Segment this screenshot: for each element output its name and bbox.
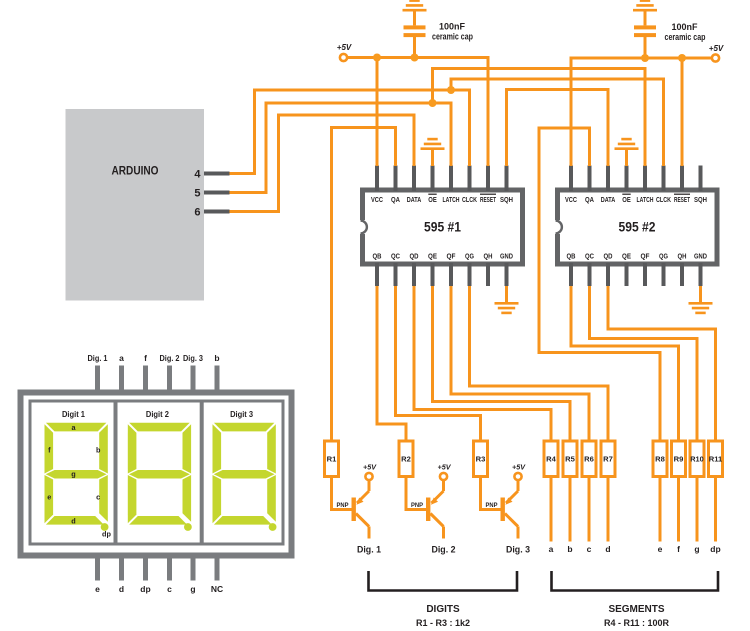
- svg-text:+5V: +5V: [438, 463, 452, 472]
- svg-text:PNP: PNP: [411, 502, 423, 509]
- display top pin a: [119, 353, 124, 390]
- svg-text:R4 - R11 : 100R: R4 - R11 : 100R: [604, 618, 670, 628]
- svg-text:R10: R10: [690, 455, 704, 464]
- 595 #1 pin QF: [447, 254, 457, 287]
- svg-text:NC: NC: [211, 584, 223, 594]
- ground above C1: [403, 1, 427, 11]
- resistor R11: [709, 441, 724, 477]
- svg-text:QE: QE: [622, 254, 631, 261]
- ground above C2: [633, 1, 657, 11]
- svg-text:QC: QC: [391, 254, 400, 261]
- 7-segment digit 1: [45, 423, 109, 531]
- svg-text:SQH: SQH: [500, 197, 513, 204]
- svg-text:LATCH: LATCH: [443, 197, 460, 204]
- 595 #1 pin LATCH: [443, 166, 460, 205]
- resistor R1: [325, 441, 339, 477]
- display top pin Dig. 2: [160, 353, 180, 390]
- display digit divider 2: [200, 401, 204, 544]
- svg-text:100nF: 100nF: [671, 22, 698, 32]
- svg-text:GND: GND: [694, 254, 707, 261]
- svg-text:595 #1: 595 #1: [424, 219, 461, 235]
- +5V terminal right: [712, 54, 719, 61]
- +5V terminal left: [340, 54, 347, 61]
- 595 #1 pin QC: [391, 254, 400, 287]
- wire QF 595#1 to R6: [451, 286, 589, 441]
- svg-text:CLCK: CLCK: [462, 197, 477, 204]
- arduino body: [66, 109, 205, 301]
- 595 #1 pin QE: [428, 254, 437, 287]
- 595 #1 notch: [359, 220, 366, 234]
- 595 #2 pin QG: [659, 254, 668, 287]
- 595 #2 pin CLCK: [656, 166, 671, 205]
- display bottom pin dp: [140, 558, 150, 594]
- wire QD 595#1 to R4: [414, 286, 551, 441]
- node junction rail/C2: [641, 54, 649, 62]
- 595 #1 body: [363, 190, 523, 264]
- 595 #1 pin QG: [465, 254, 474, 287]
- wire QE 595#1 to R5: [433, 286, 571, 441]
- svg-text:R11: R11: [709, 455, 723, 464]
- svg-text:QC: QC: [585, 254, 594, 261]
- svg-text:DATA: DATA: [407, 197, 422, 204]
- svg-text:Dig. 1: Dig. 1: [88, 353, 108, 363]
- wire QB 595#1 to R2: [377, 286, 406, 441]
- svg-text:DATA: DATA: [601, 197, 616, 204]
- wire R7 to segment d: [605, 477, 610, 555]
- 595 #2 pin QE: [622, 254, 631, 287]
- wire R9 to segment f: [677, 477, 680, 555]
- svg-text:c: c: [587, 544, 592, 554]
- ground at OE 595#2: [625, 149, 628, 166]
- svg-text:OE: OE: [622, 197, 631, 204]
- svg-text:f: f: [144, 353, 147, 363]
- +5V terminal Q3 emitter: [512, 463, 526, 481]
- resistor R7: [601, 441, 615, 477]
- svg-text:PNP: PNP: [337, 502, 349, 509]
- 595 #2 pin QF: [641, 254, 651, 287]
- node junction rail/VCC#1: [373, 54, 381, 62]
- svg-text:OE: OE: [428, 197, 437, 204]
- arduino pin 6: [194, 207, 229, 219]
- svg-text:R8: R8: [655, 455, 665, 464]
- svg-text:d: d: [605, 544, 610, 554]
- node junction LATCH net: [429, 99, 437, 107]
- 595 #2 pin SQH: [694, 166, 707, 205]
- svg-text:QH: QH: [678, 254, 687, 261]
- svg-text:PNP: PNP: [486, 502, 498, 509]
- display bottom pin NC: [211, 558, 223, 594]
- svg-text:+5V: +5V: [709, 44, 724, 53]
- 595 #2 pin QB: [567, 254, 576, 287]
- ground at GND 595#1: [505, 286, 508, 303]
- wire R3 to Q3 base: [481, 477, 501, 510]
- transistor Q2 (PNP): [411, 481, 444, 539]
- bracket SEGMENTS: [552, 571, 719, 591]
- svg-text:+5V: +5V: [337, 43, 352, 52]
- wire R8 to segment e: [658, 477, 663, 555]
- wire QC 595#2 to R10: [590, 286, 698, 441]
- resistor R3: [474, 441, 488, 477]
- capacitor C1 100nF: [404, 25, 426, 37]
- svg-text:dp: dp: [710, 544, 720, 554]
- svg-text:b: b: [567, 544, 572, 554]
- display top pin Dig. 1: [88, 353, 108, 390]
- svg-text:b: b: [214, 353, 219, 363]
- svg-text:CLCK: CLCK: [656, 197, 671, 204]
- svg-text:DIGITS: DIGITS: [426, 604, 460, 615]
- svg-text:ARDUINO: ARDUINO: [112, 164, 159, 178]
- display top pin Dig. 3: [183, 353, 203, 390]
- 595 #1 pin QD: [410, 254, 419, 287]
- svg-text:a: a: [119, 353, 124, 363]
- svg-text:QB: QB: [567, 254, 576, 261]
- svg-text:Dig. 2: Dig. 2: [432, 545, 456, 556]
- resistor R9: [672, 441, 686, 477]
- svg-text:QA: QA: [391, 197, 400, 204]
- svg-text:100nF: 100nF: [439, 22, 466, 32]
- svg-text:QG: QG: [465, 254, 474, 261]
- wire LATCH branch to LATCH 595#2: [433, 69, 646, 167]
- svg-text:QF: QF: [447, 254, 457, 261]
- bracket DIGITS: [369, 571, 518, 591]
- svg-text:RESET: RESET: [480, 197, 496, 204]
- svg-text:SQH: SQH: [694, 197, 707, 204]
- svg-text:e: e: [95, 584, 100, 594]
- display bottom pin d: [119, 558, 124, 594]
- svg-text:VCC: VCC: [371, 197, 383, 204]
- svg-text:Digit 1: Digit 1: [62, 410, 85, 419]
- display bottom pin e: [95, 558, 100, 594]
- ground at OE 595#1: [431, 149, 434, 166]
- capacitor C2 100nF: [634, 25, 656, 37]
- wire QD 595#2 to R11: [608, 286, 716, 441]
- 595 #1 pin QH: [484, 254, 493, 287]
- svg-text:VCC: VCC: [565, 197, 577, 204]
- +5V terminal Q1 emitter: [363, 463, 377, 481]
- svg-text:+5V: +5V: [363, 463, 377, 472]
- wire QC 595#1 to R3: [396, 286, 481, 441]
- resistor R8: [653, 441, 667, 477]
- 595 #2 pin QH: [678, 254, 687, 287]
- 595 #1 pin GND: [500, 254, 513, 287]
- ground at GND 595#2: [699, 286, 702, 303]
- svg-text:QD: QD: [604, 254, 613, 261]
- svg-text:QE: QE: [428, 254, 437, 261]
- 595 #2 pin OE (active low): [622, 166, 631, 205]
- wire Arduino pin 5 to LATCH 595#1: [230, 103, 452, 193]
- 595 #1 pin QA: [391, 166, 400, 205]
- display outer frame: [21, 393, 292, 556]
- wire +5V rail right to VCC 595#2: [571, 58, 712, 166]
- 595 #2 pin QA: [585, 166, 594, 205]
- arduino pin 4: [194, 169, 229, 181]
- resistor R6: [582, 441, 596, 477]
- svg-text:R3: R3: [476, 455, 486, 464]
- node junction rail/C1: [411, 54, 419, 62]
- svg-text:6: 6: [194, 207, 200, 219]
- 595 #1 pin VCC: [371, 166, 383, 205]
- svg-text:QB: QB: [373, 254, 382, 261]
- svg-text:R1 - R3 : 1k2: R1 - R3 : 1k2: [416, 618, 470, 628]
- transistor Q1 (PNP): [337, 481, 370, 539]
- wire QB 595#2 to R9: [571, 286, 679, 441]
- svg-text:+5V: +5V: [512, 463, 526, 472]
- svg-text:R5: R5: [565, 455, 575, 464]
- svg-text:c: c: [96, 492, 100, 501]
- svg-text:Digit 2: Digit 2: [146, 410, 169, 419]
- svg-text:f: f: [677, 544, 680, 554]
- svg-text:g: g: [190, 584, 195, 594]
- wire R11 to segment dp: [710, 477, 720, 555]
- display top pin b: [214, 353, 219, 390]
- svg-text:Dig. 3: Dig. 3: [506, 545, 530, 556]
- wire QA 595#2 to R8 (routed around chip): [539, 128, 660, 441]
- display bottom pin c: [167, 558, 172, 594]
- svg-text:dp: dp: [140, 584, 150, 594]
- 595 #2 body: [558, 190, 718, 264]
- 595 #2 pin DATA: [601, 166, 616, 205]
- resistor R10: [690, 441, 704, 477]
- 595 #1 pin QB: [373, 254, 382, 287]
- wire C1 to rail: [413, 36, 416, 58]
- 595 #1 pin OE (active low): [428, 166, 437, 205]
- wire QG 595#1 to R7: [470, 286, 609, 441]
- svg-text:ceramic cap: ceramic cap: [665, 32, 706, 42]
- 595 #1 pin SQH: [500, 166, 513, 205]
- svg-text:c: c: [167, 584, 172, 594]
- svg-text:R4: R4: [546, 455, 556, 464]
- svg-text:QF: QF: [641, 254, 651, 261]
- 595 #2 pin RESET (active low): [674, 166, 690, 205]
- display inner frame: [30, 401, 283, 544]
- 595 #1 pin RESET (active low): [480, 166, 496, 205]
- svg-text:Dig. 1: Dig. 1: [357, 545, 382, 556]
- 7-segment digit 2: [128, 423, 192, 531]
- 595 #2 pin VCC: [565, 166, 577, 205]
- 595 #2 pin LATCH: [637, 166, 654, 205]
- 7-segment digit 3: [213, 423, 277, 531]
- wire Arduino pin 4 to CLCK 595#1: [230, 90, 470, 174]
- 595 #2 notch: [554, 220, 561, 234]
- svg-text:ceramic cap: ceramic cap: [432, 32, 473, 42]
- resistor R4: [544, 441, 558, 477]
- 595 #1 pin DATA: [407, 166, 422, 205]
- svg-text:R9: R9: [674, 455, 684, 464]
- 595 #2 pin QC: [585, 254, 594, 287]
- arduino pin 5: [194, 188, 229, 200]
- resistor R2: [399, 441, 413, 477]
- wire +5V rail left to RESET 595#1: [348, 58, 489, 167]
- wire R10 to segment g: [694, 477, 699, 555]
- 595 #1 pin CLCK: [462, 166, 477, 205]
- wire CLCK branch to CLCK 595#2: [451, 79, 664, 166]
- svg-text:Dig. 3: Dig. 3: [183, 353, 203, 363]
- resistor R5: [563, 441, 577, 477]
- svg-text:R6: R6: [584, 455, 594, 464]
- svg-text:R2: R2: [401, 455, 411, 464]
- svg-text:b: b: [96, 445, 101, 454]
- svg-text:a: a: [549, 544, 554, 554]
- svg-text:5: 5: [194, 188, 200, 200]
- svg-text:R1: R1: [327, 455, 337, 464]
- wire R2 to Q2 base: [406, 477, 426, 510]
- svg-text:Digit 3: Digit 3: [230, 410, 253, 419]
- svg-text:595 #2: 595 #2: [619, 219, 656, 235]
- display top pin f: [144, 353, 147, 390]
- svg-text:g: g: [71, 469, 75, 478]
- svg-text:g: g: [694, 544, 699, 554]
- wire SQH 595#1 to DATA 595#2 (daisy chain): [507, 90, 609, 167]
- svg-text:R7: R7: [603, 455, 613, 464]
- node junction rail/RESET#2: [678, 54, 686, 62]
- svg-text:e: e: [47, 492, 51, 501]
- wire R1 to Q1 base: [332, 477, 352, 510]
- svg-text:QD: QD: [410, 254, 419, 261]
- svg-text:RESET: RESET: [674, 197, 690, 204]
- 595 #2 pin GND: [694, 254, 707, 287]
- svg-text:e: e: [658, 544, 663, 554]
- wire Arduino pin 6 to DATA 595#1: [230, 115, 415, 212]
- svg-text:SEGMENTS: SEGMENTS: [608, 604, 664, 615]
- svg-text:d: d: [71, 517, 75, 526]
- svg-text:4: 4: [194, 169, 201, 181]
- svg-text:d: d: [119, 584, 124, 594]
- svg-text:QG: QG: [659, 254, 668, 261]
- wire +5V to RESET 595#2: [681, 58, 684, 166]
- svg-text:GND: GND: [500, 254, 513, 261]
- wire R4 to segment a: [549, 477, 554, 555]
- wire C2 to rail: [644, 36, 647, 58]
- transistor Q3 (PNP): [486, 481, 519, 539]
- node junction CLCK net: [447, 86, 455, 94]
- svg-text:QH: QH: [484, 254, 493, 261]
- display bottom pin g: [190, 558, 195, 594]
- svg-text:Dig. 2: Dig. 2: [160, 353, 180, 363]
- svg-text:QA: QA: [585, 197, 594, 204]
- wire R6 to segment c: [587, 477, 592, 555]
- wire QA 595#1 to R1: [332, 128, 396, 442]
- 595 #2 pin QD: [604, 254, 613, 287]
- display digit divider 1: [114, 401, 118, 544]
- wire +5V to VCC 595#1: [376, 58, 379, 167]
- +5V terminal Q2 emitter: [438, 463, 452, 481]
- wire R5 to segment b: [567, 477, 572, 555]
- svg-text:LATCH: LATCH: [637, 197, 654, 204]
- svg-text:dp: dp: [102, 530, 111, 539]
